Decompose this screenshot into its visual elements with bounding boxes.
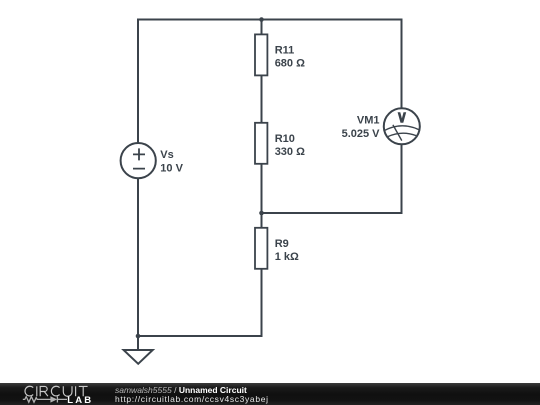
svg-text:R9: R9: [275, 238, 289, 250]
node junction bottom-left: [136, 334, 141, 339]
resistor R9: [255, 228, 267, 269]
logo letter T: [79, 386, 88, 396]
svg-text:Vs: Vs: [160, 149, 173, 161]
logo letter C: [51, 386, 59, 396]
svg-text:1 kΩ: 1 kΩ: [275, 251, 299, 263]
svg-text:R11: R11: [275, 44, 295, 56]
svg-text:VM1: VM1: [357, 115, 380, 127]
logo letter I: [36, 386, 38, 396]
node junction middle: [259, 211, 264, 216]
logo letter C: [25, 386, 33, 396]
footer text: [115, 386, 269, 404]
resistor R10: [255, 123, 267, 164]
logo letter U: [63, 386, 72, 396]
logo diode cathode bar and wire: [57, 396, 67, 402]
wire bottom horizontal: [138, 335, 262, 337]
svg-text:LAB: LAB: [67, 395, 93, 405]
voltage source Vs: [121, 143, 156, 178]
node junction top: [259, 17, 264, 22]
wire top horizontal: [138, 19, 402, 21]
svg-text:10 V: 10 V: [160, 163, 183, 175]
svg-text:R10: R10: [275, 133, 295, 145]
svg-text:680 Ω: 680 Ω: [275, 58, 305, 70]
logo letter I: [75, 386, 77, 396]
wire R10 to R9: [261, 163, 263, 228]
footer bar: [0, 383, 540, 405]
wire R9 bottom stub: [261, 268, 263, 336]
logo resistor zigzag: [23, 397, 51, 403]
logo letter R: [40, 386, 48, 396]
svg-text:5.025 V: 5.025 V: [342, 128, 381, 140]
voltmeter VM1: [384, 108, 420, 144]
wire ground stub: [137, 336, 139, 350]
wire middle horizontal: [262, 212, 402, 214]
wire right lower vertical: [401, 144, 403, 214]
logo diode triangle: [50, 396, 57, 402]
wire top-left vertical: [137, 21, 139, 145]
wire R11 top stub: [261, 20, 263, 35]
wire R11 to R10: [261, 75, 263, 123]
wire right upper vertical: [401, 20, 403, 109]
ground: [124, 350, 153, 364]
wire left lower vertical: [137, 178, 139, 337]
svg-text:330 Ω: 330 Ω: [275, 146, 305, 158]
CircuitLab logo: [0, 383, 100, 405]
resistor R11: [255, 34, 267, 75]
